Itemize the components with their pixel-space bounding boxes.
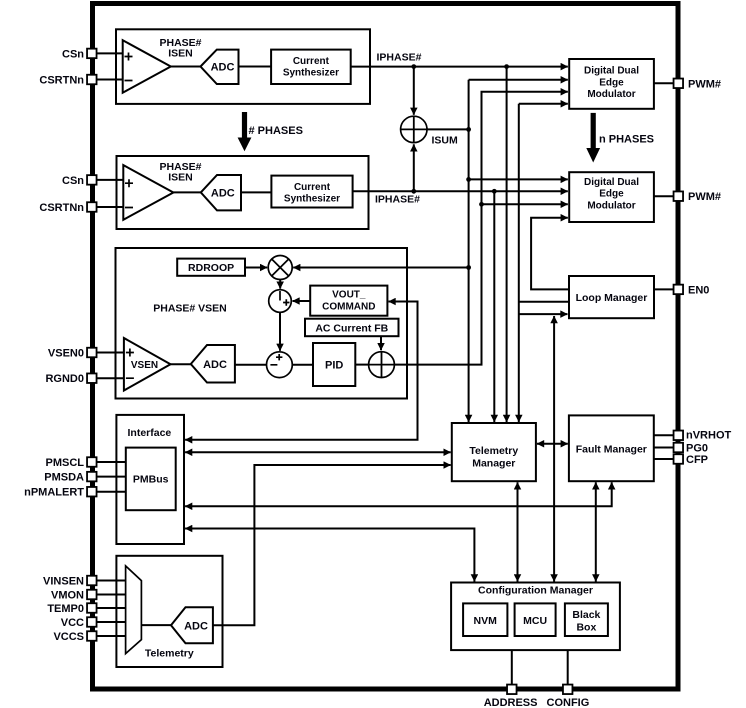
svg-text:ADC: ADC [184, 620, 208, 632]
svg-text:VSEN0: VSEN0 [48, 348, 84, 360]
svg-text:ADDRESS: ADDRESS [484, 697, 538, 708]
svg-text:COMMAND: COMMAND [322, 302, 375, 313]
svg-text:CSn: CSn [62, 48, 84, 60]
svg-text:Manager: Manager [472, 458, 515, 470]
svg-text:ISUM: ISUM [432, 135, 459, 147]
svg-text:CFP: CFP [686, 454, 708, 466]
svg-text:Telemetry: Telemetry [145, 648, 194, 660]
svg-text:VMON: VMON [51, 590, 84, 602]
svg-text:RDROOP: RDROOP [188, 262, 234, 274]
svg-text:CONFIG: CONFIG [547, 697, 590, 708]
svg-text:IPHASE#: IPHASE# [375, 194, 420, 206]
svg-text:ISEN: ISEN [168, 171, 193, 183]
svg-text:Edge: Edge [599, 77, 624, 88]
svg-text:ISEN: ISEN [168, 47, 193, 59]
svg-text:Configuration Manager: Configuration Manager [478, 585, 593, 597]
svg-text:Modulator: Modulator [587, 89, 635, 100]
svg-text:PID: PID [325, 360, 343, 372]
svg-text:Digital Dual: Digital Dual [584, 177, 639, 188]
svg-text:ADC: ADC [211, 187, 235, 199]
svg-text:PMBus: PMBus [133, 474, 169, 486]
svg-text:VSEN: VSEN [131, 360, 158, 371]
svg-text:n PHASES: n PHASES [599, 134, 654, 146]
svg-text:VINSEN: VINSEN [43, 576, 84, 588]
svg-text:PWM#: PWM# [688, 78, 721, 90]
svg-text:IPHASE#: IPHASE# [377, 52, 422, 64]
svg-text:MCU: MCU [523, 615, 547, 627]
svg-text:ADC: ADC [203, 359, 227, 371]
svg-text:PG0: PG0 [686, 443, 708, 455]
svg-text:Telemetry: Telemetry [469, 445, 518, 457]
svg-text:NVM: NVM [474, 615, 498, 627]
svg-text:Synthesizer: Synthesizer [283, 68, 339, 79]
svg-text:nVRHOT: nVRHOT [686, 430, 732, 442]
svg-text:RGND0: RGND0 [45, 373, 84, 385]
svg-text:CSn: CSn [62, 175, 84, 187]
svg-text:Current: Current [293, 56, 330, 67]
svg-text:CSRTNn: CSRTNn [39, 202, 84, 214]
svg-text:Fault Manager: Fault Manager [576, 444, 647, 456]
svg-text:EN0: EN0 [688, 284, 709, 296]
svg-text:PHASE# VSEN: PHASE# VSEN [153, 303, 227, 315]
svg-text:PWM#: PWM# [688, 191, 721, 203]
svg-text:CSRTNn: CSRTNn [39, 75, 84, 87]
svg-text:Black: Black [572, 609, 600, 621]
svg-text:nPMALERT: nPMALERT [24, 487, 84, 499]
svg-text:PMSCL: PMSCL [46, 457, 85, 469]
svg-text:VOUT_: VOUT_ [332, 290, 366, 301]
svg-text:Digital Dual: Digital Dual [584, 66, 639, 77]
svg-text:PMSDA: PMSDA [44, 472, 84, 484]
svg-text:Loop Manager: Loop Manager [576, 292, 648, 304]
svg-text:ADC: ADC [211, 62, 235, 74]
svg-text:TEMP0: TEMP0 [47, 603, 84, 615]
svg-text:Current: Current [294, 182, 331, 193]
svg-text:# PHASES: # PHASES [249, 125, 303, 137]
svg-text:VCC: VCC [61, 617, 84, 629]
svg-text:AC Current FB: AC Current FB [315, 323, 388, 335]
svg-text:Box: Box [576, 622, 596, 634]
svg-text:Interface: Interface [128, 427, 172, 439]
svg-text:Edge: Edge [599, 189, 624, 200]
svg-text:Synthesizer: Synthesizer [284, 194, 340, 205]
svg-text:Modulator: Modulator [587, 200, 635, 211]
svg-text:VCCS: VCCS [53, 631, 84, 643]
